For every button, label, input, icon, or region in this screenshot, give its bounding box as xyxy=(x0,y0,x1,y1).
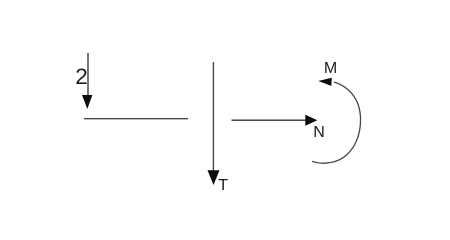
svg-text:N: N xyxy=(313,124,325,141)
svg-text:T: T xyxy=(218,177,228,194)
svg-text:M: M xyxy=(324,60,337,77)
svg-text:2: 2 xyxy=(75,64,88,89)
